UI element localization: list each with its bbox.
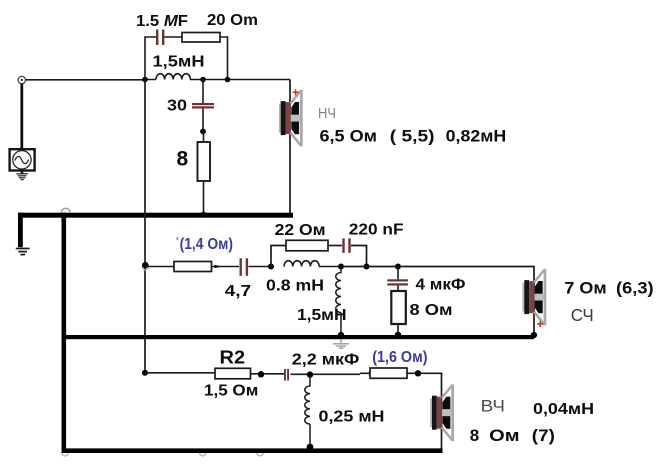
wire terminal to node A: [26, 79, 145, 81]
plus mark MID: [537, 321, 543, 327]
svg-text:4 мкФ: 4 мкФ: [416, 277, 466, 294]
junction L to bus2: [338, 332, 344, 338]
node G junction (220nF return): [364, 264, 370, 270]
bus1 left drop: [18, 213, 23, 248]
wire node D to R 4,7: [145, 266, 174, 268]
inductor 1,5mH vertical: [336, 270, 341, 336]
wire node B down to C2: [202, 80, 204, 104]
node A junction: [142, 77, 148, 83]
svg-text:22 Ом: 22 Ом: [275, 222, 326, 239]
junction square at 1,6 Om left pin: [369, 371, 373, 375]
junction 8 Om bus2: [395, 332, 401, 338]
svg-text:2,2 мкФ: 2,2 мкФ: [292, 352, 360, 369]
wire node B to speaker column: [203, 79, 290, 81]
node E junction: [268, 264, 274, 270]
svg-text:( 5,5): ( 5,5): [390, 127, 435, 146]
wire R1 down to node B: [220, 37, 228, 80]
arrow tick: [215, 265, 222, 268]
wire R2 to cap: [251, 373, 285, 375]
svg-text:0,82мН: 0,82мН: [446, 127, 507, 146]
wire cap to node J: [291, 373, 361, 375]
wire node C into resistor 8: [203, 132, 205, 215]
node J junction: [307, 371, 313, 377]
svg-text:(1,6 Ом): (1,6 Ом): [372, 349, 427, 366]
junction inductor bus3: [307, 444, 314, 451]
capacitor C1 1.5 MF: [156, 30, 164, 46]
node B junction: [200, 77, 206, 83]
svg-text:НЧ: НЧ: [318, 106, 336, 122]
wire junction to resistor: [360, 372, 370, 374]
svg-text:СЧ: СЧ: [571, 305, 594, 325]
inductor 0.8 mH: [284, 261, 341, 267]
wire 8 Om to bus2: [397, 324, 399, 337]
junction on bus: [201, 212, 207, 218]
AC source G1: [10, 149, 35, 170]
svg-text:20 Om: 20 Om: [207, 12, 258, 29]
speaker HF: [430, 384, 454, 441]
svg-text:8 Ом: 8 Ом: [410, 302, 453, 319]
svg-text:ВЧ: ВЧ: [481, 398, 505, 416]
capacitor C2 30: [192, 103, 214, 109]
hop mark on bus1: [62, 208, 71, 212]
wire 4uF to 8 Om: [397, 286, 399, 292]
inductor L1 1,5mH: [148, 74, 204, 80]
thick vertical feeder: [62, 213, 67, 453]
svg-text:6,5 Ом: 6,5 Ом: [320, 127, 378, 146]
wire node I to R2: [145, 372, 215, 375]
wire 22 Om to 220 nF: [328, 245, 342, 247]
svg-text:30: 30: [167, 98, 187, 115]
wire resistor to speaker column: [407, 373, 442, 449]
node H junction (4uF branch): [395, 264, 401, 270]
wire speaker LF column: [289, 80, 291, 214]
svg-text:0,25 мН: 0,25 мН: [319, 409, 385, 426]
ground at bus1 left: [16, 249, 30, 255]
speaker LF: [279, 90, 303, 147]
resistor 8 Om: [391, 291, 406, 324]
junction right of 1,6 Om: [415, 370, 421, 376]
capacitor 220 nF: [342, 238, 350, 253]
resistor R1 20 Om: [182, 33, 220, 43]
resistor R2 1,5 Om: [215, 368, 251, 379]
resistor (1,6 Om): [370, 368, 407, 378]
wire C1 to R1: [165, 36, 183, 38]
svg-text:(7): (7): [532, 426, 555, 445]
svg-text:4,7: 4,7: [225, 283, 252, 300]
wire main line to speaker MID: [341, 267, 534, 337]
junction bus2 speaker: [531, 332, 537, 338]
capacitor 2,2 uF: [284, 369, 289, 381]
resistor 4,7: [174, 262, 212, 272]
svg-text:Ом: Ом: [489, 426, 519, 445]
input terminal: [18, 76, 25, 83]
capacitor 4 uF: [387, 279, 408, 285]
wire cap to node E: [249, 266, 272, 268]
ground under bus2: [333, 339, 349, 348]
bus bar 1: [18, 213, 293, 218]
hop ghost at node D: [142, 267, 149, 271]
bus bar 2: [63, 335, 534, 339]
plus mark LF: [293, 89, 299, 95]
wire R 4,7 to cap: [212, 266, 240, 268]
inductor 0,25 mH vertical: [305, 378, 310, 449]
svg-text:1,5мН: 1,5мН: [153, 54, 205, 71]
svg-text:7 Ом: 7 Ом: [564, 279, 606, 298]
wire node A up to top branch: [145, 37, 156, 80]
bus bar 3: [62, 448, 443, 453]
svg-text:R2: R2: [220, 347, 246, 368]
ground under source: [16, 171, 28, 180]
ghost hop marks on bus3: [62, 453, 263, 456]
node I junction: [142, 370, 148, 376]
svg-text:0,04мН: 0,04мН: [533, 401, 594, 418]
svg-text:1,5мН: 1,5мН: [297, 307, 347, 324]
svg-text:8: 8: [470, 426, 479, 445]
svg-text:8: 8: [177, 148, 189, 171]
svg-text:ʿ(1,4 Ом): ʿ(1,4 Ом): [175, 236, 233, 253]
mid feed wire (node A down to tweeter node): [144, 80, 146, 373]
wire C2 to junction C: [202, 109, 204, 132]
svg-text:1.5 МF: 1.5 МF: [136, 13, 188, 30]
junction after R2: [258, 371, 264, 377]
wire node H down to 4uF: [397, 267, 399, 280]
junction at R1 drop: [225, 77, 231, 83]
node C junction: [200, 129, 206, 135]
svg-text:0.8 mH: 0.8 mH: [266, 278, 324, 295]
node F junction: [338, 264, 344, 270]
wire node E up to 22 Om: [271, 246, 286, 267]
wire 220 nF down to main line: [351, 246, 367, 267]
svg-text:1,5 Ом: 1,5 Ом: [204, 383, 258, 400]
resistor 22 Om: [286, 240, 328, 251]
speaker MID: [523, 269, 547, 326]
svg-text:220 nF: 220 nF: [349, 221, 404, 238]
resistor R2 8: [198, 142, 211, 181]
svg-text:(6,3): (6,3): [616, 279, 654, 298]
wire terminal down to source: [20, 84, 23, 150]
capacitor 4,7 series: [240, 258, 249, 276]
node D junction: [142, 262, 149, 269]
